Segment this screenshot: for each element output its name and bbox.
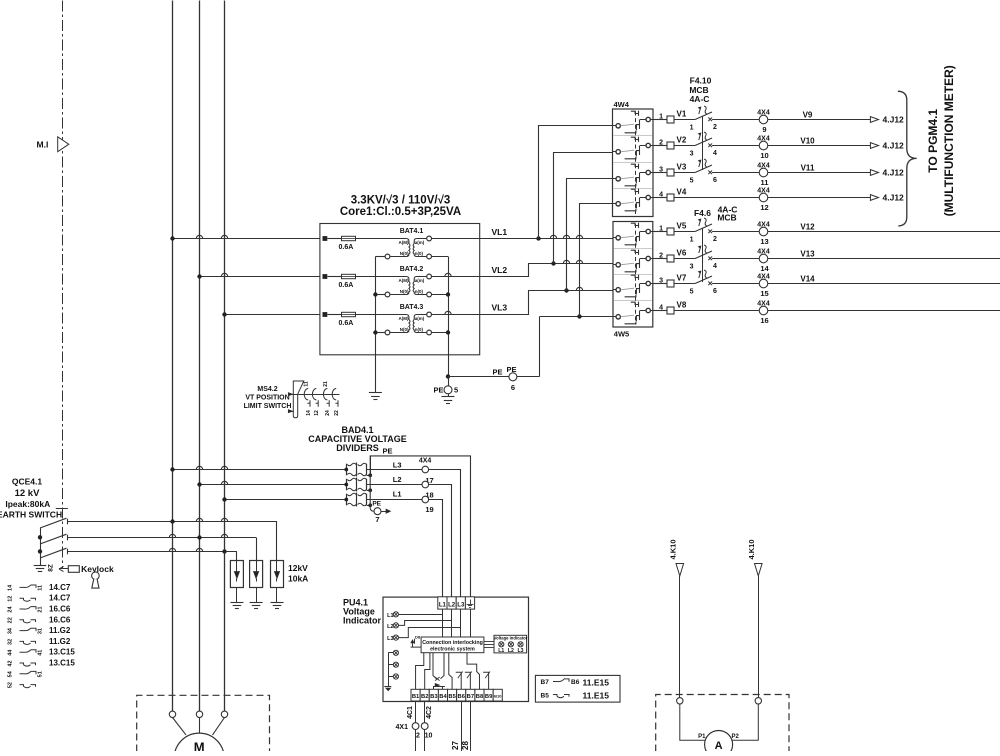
terminal 4X1:10 <box>421 723 428 730</box>
svg-text:13.C15: 13.C15 <box>49 659 75 668</box>
svg-text:4X4: 4X4 <box>757 274 770 281</box>
wire a of BAT4.3 to box edge <box>432 314 480 316</box>
svg-text:QCE4.1: QCE4.1 <box>12 477 43 487</box>
svg-text:0.6A: 0.6A <box>339 244 354 251</box>
svg-text:0.6A: 0.6A <box>339 320 354 327</box>
svg-text:V5: V5 <box>677 222 687 231</box>
diode D8 <box>411 640 414 643</box>
PU4.1 top terminal strip <box>438 597 447 609</box>
svg-text:B9: B9 <box>485 694 493 700</box>
wire B7 out 28 <box>470 701 472 752</box>
wire to right edge (15) <box>768 283 1000 285</box>
svg-text:44: 44 <box>8 649 14 656</box>
contact MS4.2 14 <box>304 389 308 400</box>
connector 4W4 pole 4 <box>613 203 616 205</box>
ammeter enclosure dashed box <box>656 695 789 752</box>
svg-text:3: 3 <box>659 167 663 174</box>
svg-text:12kV: 12kV <box>288 563 308 573</box>
wire B2 to 4X1:10 <box>424 701 426 723</box>
svg-text:L1: L1 <box>393 490 402 499</box>
terminal 16 wire <box>653 310 667 312</box>
wire PE terminal 6 to 4W5 <box>517 376 540 378</box>
linkage dashed line 4W5 <box>635 224 637 325</box>
svg-text:6: 6 <box>713 288 717 295</box>
svg-text:7: 7 <box>375 515 379 524</box>
terminal square V4 <box>667 307 674 314</box>
connector 4W5 pole 1 <box>613 237 616 239</box>
svg-text:F4.6: F4.6 <box>694 208 711 218</box>
wire divider output L2 <box>367 485 452 597</box>
wires interlock to indicator <box>484 641 494 643</box>
svg-text:BAT4.2: BAT4.2 <box>400 266 424 273</box>
wire a of BAT4.2 to box edge <box>432 276 480 278</box>
surge arrester 3 <box>271 561 284 588</box>
MCB pole contacts 1-2 <box>695 112 712 120</box>
svg-text:B2: B2 <box>421 694 428 700</box>
MCB pole contacts 3-4 <box>695 251 712 259</box>
off-page arrow 4.J12 (12) <box>870 195 878 201</box>
earth switch blades <box>40 528 42 565</box>
svg-text:D8: D8 <box>415 634 421 639</box>
wire to B4 <box>442 686 444 689</box>
legend box contacts <box>535 675 620 702</box>
svg-text:16: 16 <box>760 316 768 325</box>
svg-text:V8: V8 <box>677 301 687 310</box>
connector 4W4 pole 3 <box>613 178 616 180</box>
svg-text:M: M <box>194 740 205 752</box>
brace to multifunction meter <box>898 91 917 226</box>
terminal n of BAT4.3 <box>427 330 432 335</box>
svg-text:11.E15: 11.E15 <box>583 691 610 701</box>
svg-text:P1: P1 <box>698 734 706 740</box>
wire to ammeter P2 <box>733 704 759 740</box>
svg-text:3: 3 <box>690 151 694 158</box>
junction PE node <box>446 374 450 378</box>
terminal 12 wire <box>653 197 667 199</box>
svg-text:4: 4 <box>713 263 717 270</box>
svg-text:9: 9 <box>762 125 766 134</box>
terminal 4X4:19 <box>422 496 429 503</box>
terminal square V4 <box>667 194 674 201</box>
svg-text:B5: B5 <box>541 693 550 700</box>
wire riser to 4W4 pole 2 <box>554 153 613 264</box>
svg-text:22: 22 <box>334 410 340 416</box>
svg-text:42: 42 <box>8 660 14 666</box>
svg-text:4.J12: 4.J12 <box>883 193 905 203</box>
wire bus L3 to divider 3 <box>225 499 347 501</box>
svg-text:V11: V11 <box>801 164 815 173</box>
voltage indicator sub-box <box>494 635 527 653</box>
motor enclosure dashed box <box>137 695 270 751</box>
terminal 13 wire <box>653 231 667 233</box>
ammeter A <box>705 731 733 756</box>
wire to 4.J12 (10) <box>768 145 871 147</box>
svg-text:B4: B4 <box>439 694 447 700</box>
svg-text:4.K10: 4.K10 <box>747 539 756 559</box>
wire to B1 <box>416 653 424 690</box>
connector 4W5 pole 2 <box>613 264 616 266</box>
ammeter circuit terminal (2) <box>755 698 761 704</box>
wire B1 to 4X1:2 <box>415 701 417 723</box>
svg-text:11: 11 <box>304 381 310 387</box>
wire earth switch pole 1 <box>68 521 277 523</box>
junction PE riser <box>577 314 581 318</box>
terminal a of BAT4.1 <box>427 236 432 241</box>
off-page arrow 4.J12 (10) <box>870 143 878 149</box>
node M.I marker <box>58 137 69 152</box>
svg-text:Connection interlocking: Connection interlocking <box>422 640 483 646</box>
svg-text:PE: PE <box>507 365 517 374</box>
svg-text:L2: L2 <box>387 624 393 630</box>
motor terminal 1 <box>169 711 175 717</box>
capacitive divider C3 <box>346 494 348 506</box>
svg-text:B6: B6 <box>571 679 580 686</box>
svg-text:F4.10: F4.10 <box>690 76 712 86</box>
svg-text:n(0): n(0) <box>415 327 424 332</box>
capacitive divider PE rail <box>370 456 372 475</box>
svg-text:13.C15: 13.C15 <box>49 648 75 657</box>
svg-text:19: 19 <box>425 505 433 514</box>
motor leads <box>173 718 187 735</box>
svg-text:27: 27 <box>451 741 460 750</box>
wire riser to 4W4 pole 1 <box>539 126 613 239</box>
svg-text:A(M): A(M) <box>399 240 409 245</box>
svg-text:M.I: M.I <box>37 140 49 150</box>
svg-text:V6: V6 <box>677 249 687 258</box>
svg-text:B8: B8 <box>476 694 484 700</box>
motor terminal 2 <box>196 711 202 717</box>
keylock box <box>68 566 79 573</box>
contact MS4.2 24 <box>323 389 327 400</box>
svg-text:6: 6 <box>713 177 717 184</box>
thyristor pair <box>433 653 437 679</box>
terminal square V2 <box>667 255 674 262</box>
surge arrester 2 <box>250 561 263 588</box>
surge arrester 1 <box>230 561 243 588</box>
wire divider PE <box>370 456 470 597</box>
svg-text:4: 4 <box>659 192 663 199</box>
svg-text:V10: V10 <box>800 137 815 146</box>
svg-text:4X4: 4X4 <box>757 249 770 256</box>
svg-text:16.C6: 16.C6 <box>49 615 71 624</box>
svg-text:P2: P2 <box>732 734 740 740</box>
svg-text:B10: B10 <box>494 694 502 699</box>
svg-text:B5: B5 <box>448 694 456 700</box>
svg-text:V2: V2 <box>677 136 687 145</box>
svg-text:1: 1 <box>690 125 694 132</box>
ground arrester 3 <box>276 588 278 603</box>
svg-text:BAT4.1: BAT4.1 <box>400 228 424 235</box>
contact B6 <box>456 672 462 689</box>
terminal 11 wire <box>653 172 667 174</box>
svg-text:4W5: 4W5 <box>614 330 629 339</box>
svg-text:4X4: 4X4 <box>757 188 770 195</box>
svg-text:4C1: 4C1 <box>407 706 414 719</box>
terminal 4X4:10 <box>759 141 768 150</box>
svg-text:5: 5 <box>690 178 694 185</box>
svg-text:2: 2 <box>713 236 717 243</box>
motor M <box>174 733 224 756</box>
svg-text:10: 10 <box>760 151 768 160</box>
busbar L3 <box>224 1 226 712</box>
svg-text:4X4: 4X4 <box>757 301 770 308</box>
contact MS4.2 12 <box>312 389 316 400</box>
svg-text:V4: V4 <box>677 188 687 197</box>
wire riser to 4W4 pole 4 <box>580 204 613 317</box>
svg-text:4X1: 4X1 <box>396 724 409 731</box>
wire to B2 <box>425 653 430 690</box>
mechanical linkage line M.I <box>62 1 64 569</box>
svg-text:LIMIT SWITCH: LIMIT SWITCH <box>244 403 292 410</box>
svg-text:PE: PE <box>492 368 502 377</box>
svg-text:L3: L3 <box>457 602 465 608</box>
svg-text:L2: L2 <box>508 648 514 654</box>
svg-text:21: 21 <box>38 606 44 612</box>
svg-text:4X4: 4X4 <box>757 222 770 229</box>
svg-text:5: 5 <box>690 289 694 296</box>
terminal square V2 <box>667 142 674 149</box>
svg-text:PE: PE <box>382 447 392 456</box>
svg-text:13: 13 <box>760 237 768 246</box>
svg-text:VL2: VL2 <box>492 265 508 275</box>
wire VL1 <box>480 238 613 240</box>
svg-text:4A-C: 4A-C <box>690 94 710 104</box>
terminal 14 wire <box>653 258 667 260</box>
cam actuator MS4.2 <box>293 381 304 418</box>
wire to B3 <box>433 686 435 689</box>
svg-text:Indicator: Indicator <box>343 616 382 626</box>
wire to right edge (14) <box>768 258 1000 260</box>
keylock arrow <box>59 568 68 570</box>
svg-text:L3: L3 <box>387 636 393 642</box>
svg-text:14: 14 <box>8 584 14 591</box>
svg-text:Ipeak:80kA: Ipeak:80kA <box>5 499 50 509</box>
svg-text:a(m): a(m) <box>415 316 425 321</box>
svg-text:4.J12: 4.J12 <box>883 168 905 178</box>
contact MS4.2 22 <box>332 389 336 400</box>
svg-text:4W4: 4W4 <box>614 100 630 109</box>
svg-text:21: 21 <box>323 381 329 387</box>
svg-text:DIVIDERS: DIVIDERS <box>336 443 379 453</box>
wire to 4.J12 (9) <box>768 119 871 121</box>
svg-text:N(0): N(0) <box>400 251 409 256</box>
svg-text:VL3: VL3 <box>492 303 508 313</box>
terminal a of BAT4.3 <box>427 312 432 317</box>
svg-text:A(M): A(M) <box>399 278 409 283</box>
svg-text:4.J12: 4.J12 <box>883 115 905 125</box>
ground arrester 2 <box>256 588 258 603</box>
svg-text:V14: V14 <box>800 275 815 284</box>
svg-text:L1: L1 <box>439 602 447 608</box>
svg-text:11.G2: 11.G2 <box>49 626 71 635</box>
secondary common wire <box>448 257 450 377</box>
wire B6 out 27 <box>461 701 463 752</box>
MCB pole contacts 5-6 <box>695 276 712 284</box>
svg-text:V3: V3 <box>677 163 687 172</box>
svg-text:V9: V9 <box>803 111 813 120</box>
svg-text:14: 14 <box>760 264 769 273</box>
svg-text:B7: B7 <box>467 694 474 700</box>
svg-text:15: 15 <box>760 289 768 298</box>
svg-text:4: 4 <box>659 305 663 312</box>
svg-text:1: 1 <box>690 237 694 244</box>
svg-text:6: 6 <box>511 383 515 392</box>
svg-text:L1: L1 <box>387 613 393 619</box>
svg-text:4X4: 4X4 <box>757 136 770 143</box>
svg-text:VL1: VL1 <box>492 227 508 237</box>
svg-text:54: 54 <box>8 670 14 677</box>
svg-text:8Z: 8Z <box>47 564 54 572</box>
terminal 4X1:2 <box>412 723 419 730</box>
MCB F4.10 linkage <box>702 116 704 170</box>
wire to 4.J12 (11) <box>768 172 871 174</box>
svg-text:52: 52 <box>8 682 14 688</box>
wire to right edge (13) <box>768 231 1000 233</box>
terminal 4X4:13 <box>759 227 768 236</box>
terminal n of BAT4.1 <box>427 254 432 259</box>
svg-text:4: 4 <box>713 150 717 157</box>
lamp group lower <box>393 650 398 655</box>
ground PE 5 <box>448 394 450 397</box>
busbar L2 <box>199 1 201 712</box>
fuse F3 0.6A <box>323 312 328 317</box>
svg-text:Voltage indicator: Voltage indicator <box>494 636 528 641</box>
ground primary neutral <box>369 392 382 394</box>
terminal PE 7 <box>370 508 374 512</box>
connector 4W5 pole 3 <box>613 289 616 291</box>
svg-text:12 kV: 12 kV <box>15 488 40 499</box>
svg-text:12: 12 <box>8 596 14 602</box>
svg-text:MCB: MCB <box>717 213 736 223</box>
svg-text:2: 2 <box>659 140 663 147</box>
contact B7 <box>465 672 471 689</box>
svg-text:4X4: 4X4 <box>757 110 770 117</box>
contact feed B8-B9 <box>467 653 479 690</box>
MCB pole contacts 1-2 <box>695 224 712 232</box>
svg-text:1: 1 <box>659 226 663 233</box>
wire 4.K10 (1) <box>679 576 681 698</box>
wire to 4.J12 (12) <box>768 197 871 199</box>
svg-text:0.6A: 0.6A <box>339 282 354 289</box>
linkage dashed line 4W4 <box>635 112 637 215</box>
svg-text:34: 34 <box>8 627 14 634</box>
terminal a of BAT4.2 <box>427 274 432 279</box>
wire divider output L3 <box>367 470 461 597</box>
svg-text:2: 2 <box>416 733 420 740</box>
svg-text:28: 28 <box>461 741 470 750</box>
terminal 4X4:14 <box>759 254 768 263</box>
MCB F4.6 linkage <box>702 228 704 282</box>
fuse F2 0.6A <box>323 274 328 279</box>
wire bus L3 to VT fuse 3 <box>225 314 320 316</box>
svg-text:BAT4.3: BAT4.3 <box>400 304 424 311</box>
svg-text:2: 2 <box>713 124 717 131</box>
terminal square V1 <box>667 116 674 123</box>
wire 4.K10 (2) <box>758 576 760 698</box>
svg-text:51: 51 <box>38 671 44 677</box>
wire bus L2 to VT fuse 2 <box>200 276 320 278</box>
svg-text:TO PGM4.1: TO PGM4.1 <box>926 109 940 173</box>
wire earth switch pole 3 <box>68 551 237 553</box>
capacitive divider C2 <box>346 479 348 491</box>
svg-text:(MULTIFUNCTION METER): (MULTIFUNCTION METER) <box>942 65 956 216</box>
terminal 4X4:12 <box>759 193 768 202</box>
svg-text:10: 10 <box>425 733 433 740</box>
svg-text:V12: V12 <box>800 223 815 232</box>
wire to right edge (16) <box>768 310 1000 312</box>
svg-text:PE: PE <box>372 501 381 508</box>
motor terminal 3 <box>221 711 227 717</box>
svg-text:4.K10: 4.K10 <box>668 539 677 559</box>
svg-text:electronic system: electronic system <box>430 647 475 653</box>
MCB pole contacts 5-6 <box>695 165 712 173</box>
svg-text:N(0): N(0) <box>400 327 409 332</box>
svg-text:B6: B6 <box>458 694 466 700</box>
svg-text:41: 41 <box>38 650 44 656</box>
contact feed B5-B7 <box>449 653 452 690</box>
connector 4W4 pole 2 <box>613 151 616 153</box>
svg-text:Core1:Cl.:0.5+3P,25VA: Core1:Cl.:0.5+3P,25VA <box>340 206 461 218</box>
svg-text:a(m): a(m) <box>415 240 425 245</box>
wire a of BAT4.1 to box edge <box>432 238 480 240</box>
wire lamp ground <box>388 653 390 686</box>
wire riser to 4W4 pole 3 <box>567 179 613 291</box>
svg-text:2: 2 <box>659 253 663 260</box>
wire to ammeter P1 <box>680 704 705 740</box>
ground arrester 1 <box>236 588 238 603</box>
linkage earth switch <box>56 508 68 510</box>
connector 4W4 pole 1 <box>613 125 616 127</box>
svg-text:4.J12: 4.J12 <box>883 141 905 151</box>
svg-text:24: 24 <box>8 606 14 613</box>
svg-text:PE: PE <box>433 386 443 395</box>
svg-text:22: 22 <box>8 617 14 623</box>
key icon <box>92 572 100 580</box>
off-page arrow 4.J12 (9) <box>870 117 878 123</box>
svg-text:10kA: 10kA <box>288 574 308 584</box>
svg-text:14.C7: 14.C7 <box>49 594 71 603</box>
terminal 4X4:17 <box>422 466 429 473</box>
fuse F1 0.6A <box>323 236 328 241</box>
svg-text:EARTH SWITCH: EARTH SWITCH <box>0 510 62 520</box>
svg-text:A: A <box>715 740 723 751</box>
svg-text:V1: V1 <box>677 110 687 119</box>
svg-text:L3: L3 <box>393 460 402 469</box>
svg-text:12: 12 <box>760 203 768 212</box>
terminal 4X4:9 <box>759 115 768 124</box>
svg-text:31: 31 <box>38 628 44 634</box>
terminal 4X4:15 <box>759 279 768 288</box>
wire bus L2 to divider 2 <box>200 484 347 486</box>
arrow PE 7 <box>381 511 387 513</box>
svg-text:5: 5 <box>454 386 458 395</box>
svg-text:B1: B1 <box>412 694 420 700</box>
svg-text:L2: L2 <box>448 602 456 608</box>
wire divider output L1 <box>367 500 443 597</box>
VT enclosure box <box>320 224 480 355</box>
terminal block 4W5 <box>613 222 653 328</box>
wire earth switch pole 2 <box>68 537 256 539</box>
ground glyph top strip <box>470 600 472 605</box>
terminal PE 6 <box>509 373 517 381</box>
wire bus L1 to divider 1 <box>173 469 347 471</box>
off-page arrow 4.J12 (11) <box>870 170 878 176</box>
svg-text:n(0): n(0) <box>415 289 424 294</box>
ammeter circuit terminal (1) <box>677 698 683 704</box>
svg-text:4C2: 4C2 <box>426 706 433 719</box>
connector 4W5 pole 4 <box>613 316 616 318</box>
svg-text:A(M): A(M) <box>399 316 409 321</box>
